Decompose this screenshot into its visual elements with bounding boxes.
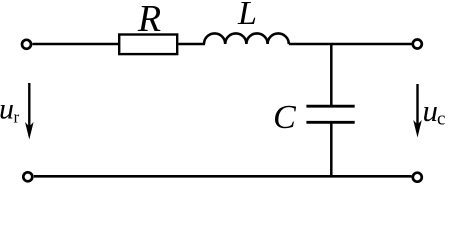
svg-text:c: c (437, 109, 445, 130)
svg-text:u: u (0, 93, 14, 126)
svg-text:r: r (14, 108, 20, 127)
svg-text:C: C (273, 99, 296, 136)
svg-text:L: L (237, 0, 257, 32)
svg-text:u: u (423, 93, 439, 128)
svg-text:R: R (137, 0, 161, 40)
